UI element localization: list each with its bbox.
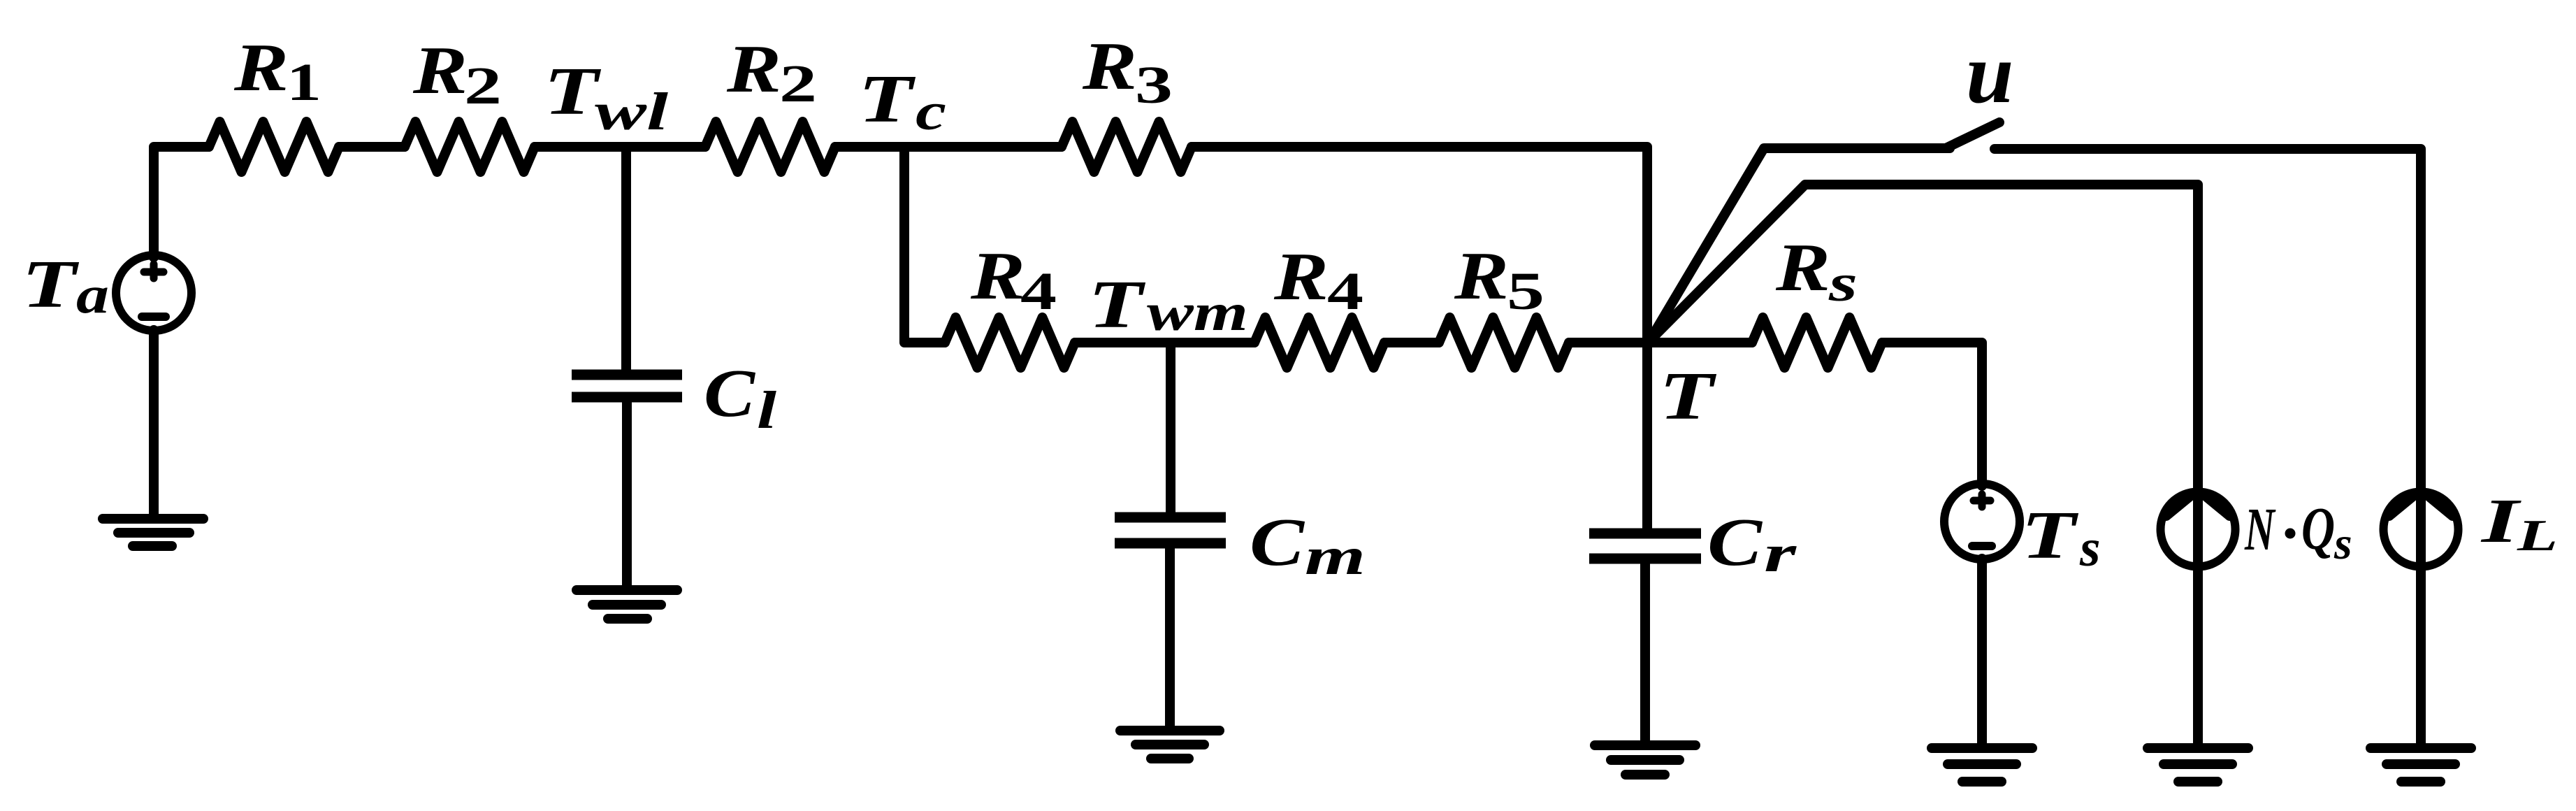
svg-text:R: R [1273,239,1329,314]
svg-text:R: R [970,238,1025,313]
wire node T to Rs [1647,338,1752,347]
value label R4 (left) [970,238,1057,321]
wire Cm to ground [1165,543,1175,731]
value label Ts [2021,498,2101,577]
svg-text:T: T [1088,267,1146,342]
svg-text:3: 3 [1135,56,1173,115]
svg-text:c: c [916,82,946,141]
wire R5 to node T [1569,338,1647,347]
wire R4 to R5 [1384,338,1439,347]
wire R4 to R4 through node Twm [1075,338,1254,347]
value label Rs [1775,230,1858,313]
wire Ts to ground [1977,559,1987,748]
resistor R2 (right) [705,122,835,172]
svg-text:wl: wl [595,82,668,141]
svg-text:5: 5 [1507,262,1544,321]
svg-text:wm: wm [1147,283,1248,342]
ground IL [2371,748,2471,782]
svg-text:2: 2 [464,57,502,115]
value label R4 (right) [1273,239,1363,321]
ground Cr [1595,745,1695,775]
wire switch to IL (top right corner) [1995,149,2421,488]
value label Cm [1250,505,1366,586]
node Tc label [858,62,946,141]
svg-text:u: u [1966,25,2013,121]
voltage source Ts [1944,484,2020,559]
resistor R1 [209,122,339,172]
wire Ta to ground [149,330,159,519]
current source NQs [2161,491,2236,567]
svg-text:m: m [1305,527,1366,586]
wire R2 to R2 through node Twl [535,142,705,152]
svg-text:l: l [757,381,776,440]
svg-text:R: R [233,30,289,105]
svg-text:1: 1 [287,53,321,112]
wire Twm down to Cm [1166,343,1175,517]
wire Cl to ground [622,397,632,590]
current source IL [2384,491,2459,567]
ground Ta [103,519,203,546]
svg-text:I: I [2480,487,2521,556]
node Twm label [1088,267,1248,342]
svg-text:R: R [1454,238,1509,313]
ground Ts [1932,748,2032,782]
svg-text:R: R [1082,29,1137,103]
voltage source Ta [116,255,191,331]
wire R3 to node T (top right corner) [1192,147,1647,343]
value label R5 [1454,238,1544,321]
svg-text:R: R [412,33,468,108]
svg-text:N: N [2244,496,2275,564]
ground Cl [577,590,677,619]
switch label u [1966,25,2013,121]
svg-text:L: L [2517,510,2558,560]
svg-text:a: a [76,266,109,324]
svg-text:s: s [2333,518,2352,569]
value label IL [2480,487,2558,560]
wire through IL [2416,488,2426,748]
svg-text:4: 4 [1327,262,1363,321]
wire node T diagonal to NQs [1649,185,2198,488]
resistor R5 [1439,317,1569,368]
svg-text:T: T [22,247,80,322]
svg-text:C: C [1250,505,1305,580]
wire node T diagonal to switch u [1649,148,1950,341]
svg-text:2: 2 [779,55,817,113]
node Twl label [544,54,668,141]
resistor R2 (left) [405,122,535,172]
svg-text:Q: Q [2301,494,2335,562]
svg-text:R: R [726,31,781,106]
svg-text:C: C [704,356,755,431]
value label R3 [1082,29,1173,115]
wire R1 to R2 [339,142,405,152]
wire Rs to Ts [1882,343,1982,486]
capacitor Cl [572,375,682,397]
resistor R4 (left) [945,317,1075,368]
wire Twl down to Cl [621,147,631,371]
ground NQs [2148,748,2248,782]
svg-text:T: T [858,62,916,136]
value label R1 [233,30,321,112]
svg-text:4: 4 [1020,262,1057,321]
resistor R4 (right) [1254,317,1384,368]
svg-text:s: s [2079,519,2101,577]
resistor R3 [1062,122,1192,172]
wire Ta top to R1 [154,147,209,257]
value label R2 (left) [412,33,502,115]
wire through NQs [2193,488,2203,748]
value label N·Qs [2244,494,2352,569]
value label Ta [22,247,109,324]
wire Cr to ground [1640,559,1650,745]
svg-text:T: T [1659,359,1717,433]
svg-text:C: C [1707,505,1763,580]
svg-text:T: T [544,54,602,129]
wire R2 to R3 through node Tc [835,142,1062,152]
capacitor Cm [1115,517,1226,543]
wire node T down to Cr [1642,343,1652,533]
svg-text:T: T [2021,498,2079,573]
wire Tc down to middle row [904,147,945,343]
value label Cl [704,356,776,440]
value label R2 (right) [726,31,817,113]
resistor Rs [1752,317,1882,368]
switch u blade [1946,122,1999,148]
value label Cr [1707,505,1797,583]
svg-text:R: R [1775,230,1830,305]
capacitor Cr [1589,533,1701,559]
node T label [1659,359,1717,433]
ground Cm [1120,731,1220,759]
svg-text:s: s [1828,254,1858,313]
svg-text:r: r [1764,524,1797,583]
